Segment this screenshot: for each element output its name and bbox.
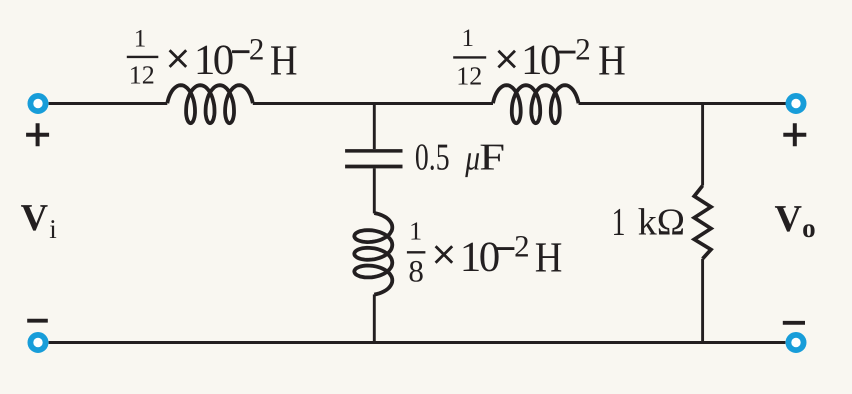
svg-text:1: 1	[134, 25, 147, 52]
capacitor C1 bottom plate	[345, 165, 402, 169]
plus sign right	[783, 123, 806, 146]
svg-text:μ: μ	[464, 139, 480, 178]
wire right branch lower	[701, 259, 704, 343]
resistor R1 zigzag	[694, 186, 711, 259]
inductor L3 coil (vertical)	[354, 213, 392, 295]
wire right branch upper	[701, 104, 704, 186]
svg-text:F: F	[479, 136, 505, 178]
label L3 fraction 1/8	[407, 216, 426, 288]
svg-text:H: H	[598, 38, 626, 85]
svg-text:12: 12	[456, 61, 482, 90]
svg-text:2: 2	[514, 228, 530, 263]
svg-text:0.5: 0.5	[415, 136, 450, 178]
svg-text:H: H	[535, 235, 563, 282]
terminal bottom-right	[788, 335, 803, 350]
label L3 times sign	[436, 246, 453, 263]
label L1 exponent minus	[232, 50, 250, 53]
label L3 exponent minus	[497, 247, 515, 250]
wire bottom	[49, 341, 786, 344]
inductor L2 coil	[493, 85, 579, 123]
svg-text:12: 12	[129, 61, 155, 90]
label L1 fraction 1/12	[127, 25, 159, 89]
svg-text:o: o	[802, 213, 816, 243]
terminal top-right	[788, 96, 803, 111]
minus sign left	[27, 319, 48, 323]
plus sign left	[26, 123, 49, 146]
svg-text:H: H	[270, 37, 298, 84]
svg-text:V: V	[775, 198, 803, 240]
svg-text:10: 10	[521, 37, 560, 84]
svg-text:8: 8	[408, 254, 424, 289]
label L1 times sign	[170, 50, 187, 67]
label L2 fraction 1/12	[453, 25, 486, 90]
svg-text:i: i	[49, 214, 57, 244]
svg-text:10: 10	[460, 234, 499, 281]
svg-text:10: 10	[194, 37, 233, 84]
svg-text:kΩ: kΩ	[638, 201, 685, 243]
svg-text:1: 1	[409, 216, 422, 245]
label L2 exponent minus	[558, 51, 576, 54]
capacitor C1 top plate	[345, 149, 402, 153]
wire top-right segment	[579, 102, 787, 105]
wire middle branch lower	[373, 294, 376, 342]
svg-text:1: 1	[612, 200, 626, 244]
terminal bottom-left	[30, 335, 45, 350]
wire top-middle segment	[253, 102, 493, 105]
wire middle branch upper	[373, 104, 376, 150]
minus sign right	[783, 321, 805, 325]
wire top-left segment	[49, 102, 168, 105]
svg-text:2: 2	[249, 31, 265, 66]
inductor L1 coil	[167, 85, 253, 123]
wire capacitor to coil	[373, 168, 376, 213]
terminal top-left	[30, 96, 45, 111]
label L2 times sign	[498, 51, 515, 68]
svg-text:V: V	[21, 197, 49, 239]
svg-text:1: 1	[461, 25, 474, 52]
svg-text:2: 2	[575, 31, 591, 66]
